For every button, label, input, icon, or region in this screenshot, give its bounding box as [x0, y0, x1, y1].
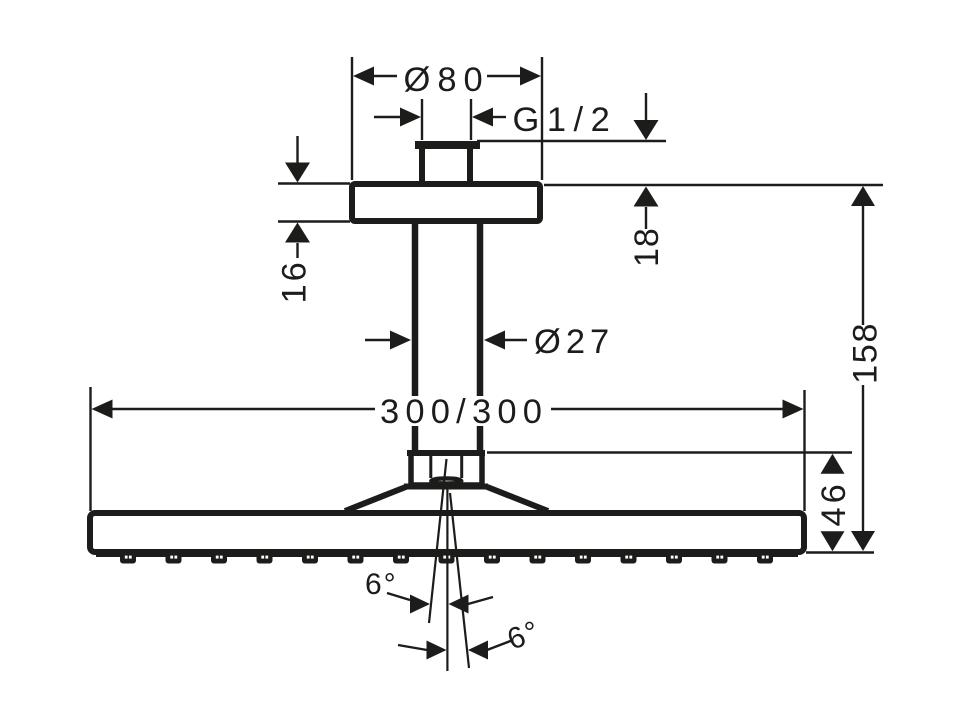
dim 300/300 extension line right: [803, 390, 805, 511]
dim 300/300 arrow left: [92, 400, 113, 419]
nut inner facet line left: [429, 456, 432, 478]
spray angle 6 deg lower arrow right-pointing: [427, 641, 447, 660]
white knockout behind 300/300 label: [377, 396, 547, 426]
dim 16 top reference line: [278, 182, 350, 184]
stem top cap bar: [415, 141, 480, 149]
dim 300/300 arrow right: [783, 400, 804, 419]
spray centerline: [446, 487, 448, 671]
dim 158 line: [851, 186, 875, 206]
spray angle 6 deg upper: tail left: [387, 593, 410, 600]
G1/2 threaded stem above flange: [419, 149, 425, 182]
dim Ø80 extension line left: [351, 57, 353, 180]
nozzle tab 13: [666, 551, 682, 564]
dim Ø27 arrow left: [365, 339, 392, 341]
nozzle tab 11: [575, 551, 591, 564]
cone right slant: [486, 487, 548, 512]
dim Ø80 extension line right: [541, 57, 543, 180]
connector nut top bar: [407, 450, 485, 456]
svg-text:46: 46: [815, 480, 853, 526]
spray angle 6 deg lower: tail left: [398, 645, 427, 650]
dim G1/2 extension line right: [470, 99, 472, 140]
spray angle 6 deg upper arrow right-pointing: [410, 595, 430, 614]
dim G1/2 arrow left: [374, 116, 401, 118]
cone left slant: [345, 487, 407, 512]
svg-text:300/300: 300/300: [380, 393, 548, 431]
spray angle 6 deg upper arrow left-pointing: [449, 595, 469, 614]
connector nut body: [411, 453, 482, 485]
dim 16 up arrow: [285, 223, 310, 243]
svg-text:6°: 6°: [365, 568, 398, 601]
nozzle tab 5: [302, 551, 318, 564]
nozzle tab 8: [439, 551, 455, 564]
shower arm pipe Ø27: [412, 221, 419, 450]
nozzle tab 1: [120, 551, 136, 564]
nozzle tab 12: [621, 551, 637, 564]
nozzle tab 9: [484, 551, 500, 564]
dim 18 up arrow: [634, 187, 659, 207]
spray angle line right: [450, 493, 469, 668]
svg-text:18: 18: [628, 227, 666, 267]
dim G1/2 arrow right: [472, 108, 493, 127]
svg-text:G1/2: G1/2: [513, 101, 618, 139]
dim G1/2 extension line left: [421, 99, 423, 140]
svg-text:16: 16: [276, 259, 314, 303]
shower head plate: [90, 513, 804, 552]
dim 46 down arrow: [821, 531, 845, 551]
outlet ellipse: [431, 478, 461, 483]
dim Ø80 arrow right: [520, 67, 541, 86]
nozzle tab 6: [348, 551, 364, 564]
nozzle tab 15: [757, 551, 773, 564]
G1/2 down arrow: [645, 93, 647, 122]
spray angle 6 deg lower arrow left-pointing: [468, 641, 488, 660]
nozzle tab 10: [530, 551, 546, 564]
flange top extension line to right: [544, 184, 883, 187]
dim Ø27 arrow right: [484, 331, 505, 350]
nozzle tab 2: [166, 551, 182, 564]
svg-text:Ø80: Ø80: [404, 61, 490, 99]
svg-text:Ø27: Ø27: [534, 323, 614, 361]
G1/2 thread reference line: [477, 140, 666, 143]
nozzle tab 4: [257, 551, 273, 564]
svg-text:6°: 6°: [503, 614, 545, 656]
dim 16 bottom reference line: [278, 220, 350, 222]
dim 46 / 158 bottom reference line: [806, 551, 874, 553]
dim 158 down arrow: [851, 531, 875, 551]
dim 46 top reference line: [487, 451, 852, 453]
dim Ø80 arrow left: [353, 67, 374, 86]
dim 46 up arrow: [821, 454, 845, 474]
dim 16 down arrow: [296, 136, 298, 164]
nozzle tab 7: [393, 551, 409, 564]
shower head ceiling flange: [352, 184, 540, 221]
nozzle tab 3: [211, 551, 227, 564]
nozzle tab 14: [712, 551, 728, 564]
escutcheon cone top edge: [404, 484, 488, 490]
spray angle line left: [429, 459, 447, 623]
dim 300/300 extension line left: [89, 387, 91, 511]
svg-text:158: 158: [847, 322, 885, 384]
nut inner facet line right: [460, 456, 463, 478]
sprayface lip line under plate: [96, 554, 798, 557]
